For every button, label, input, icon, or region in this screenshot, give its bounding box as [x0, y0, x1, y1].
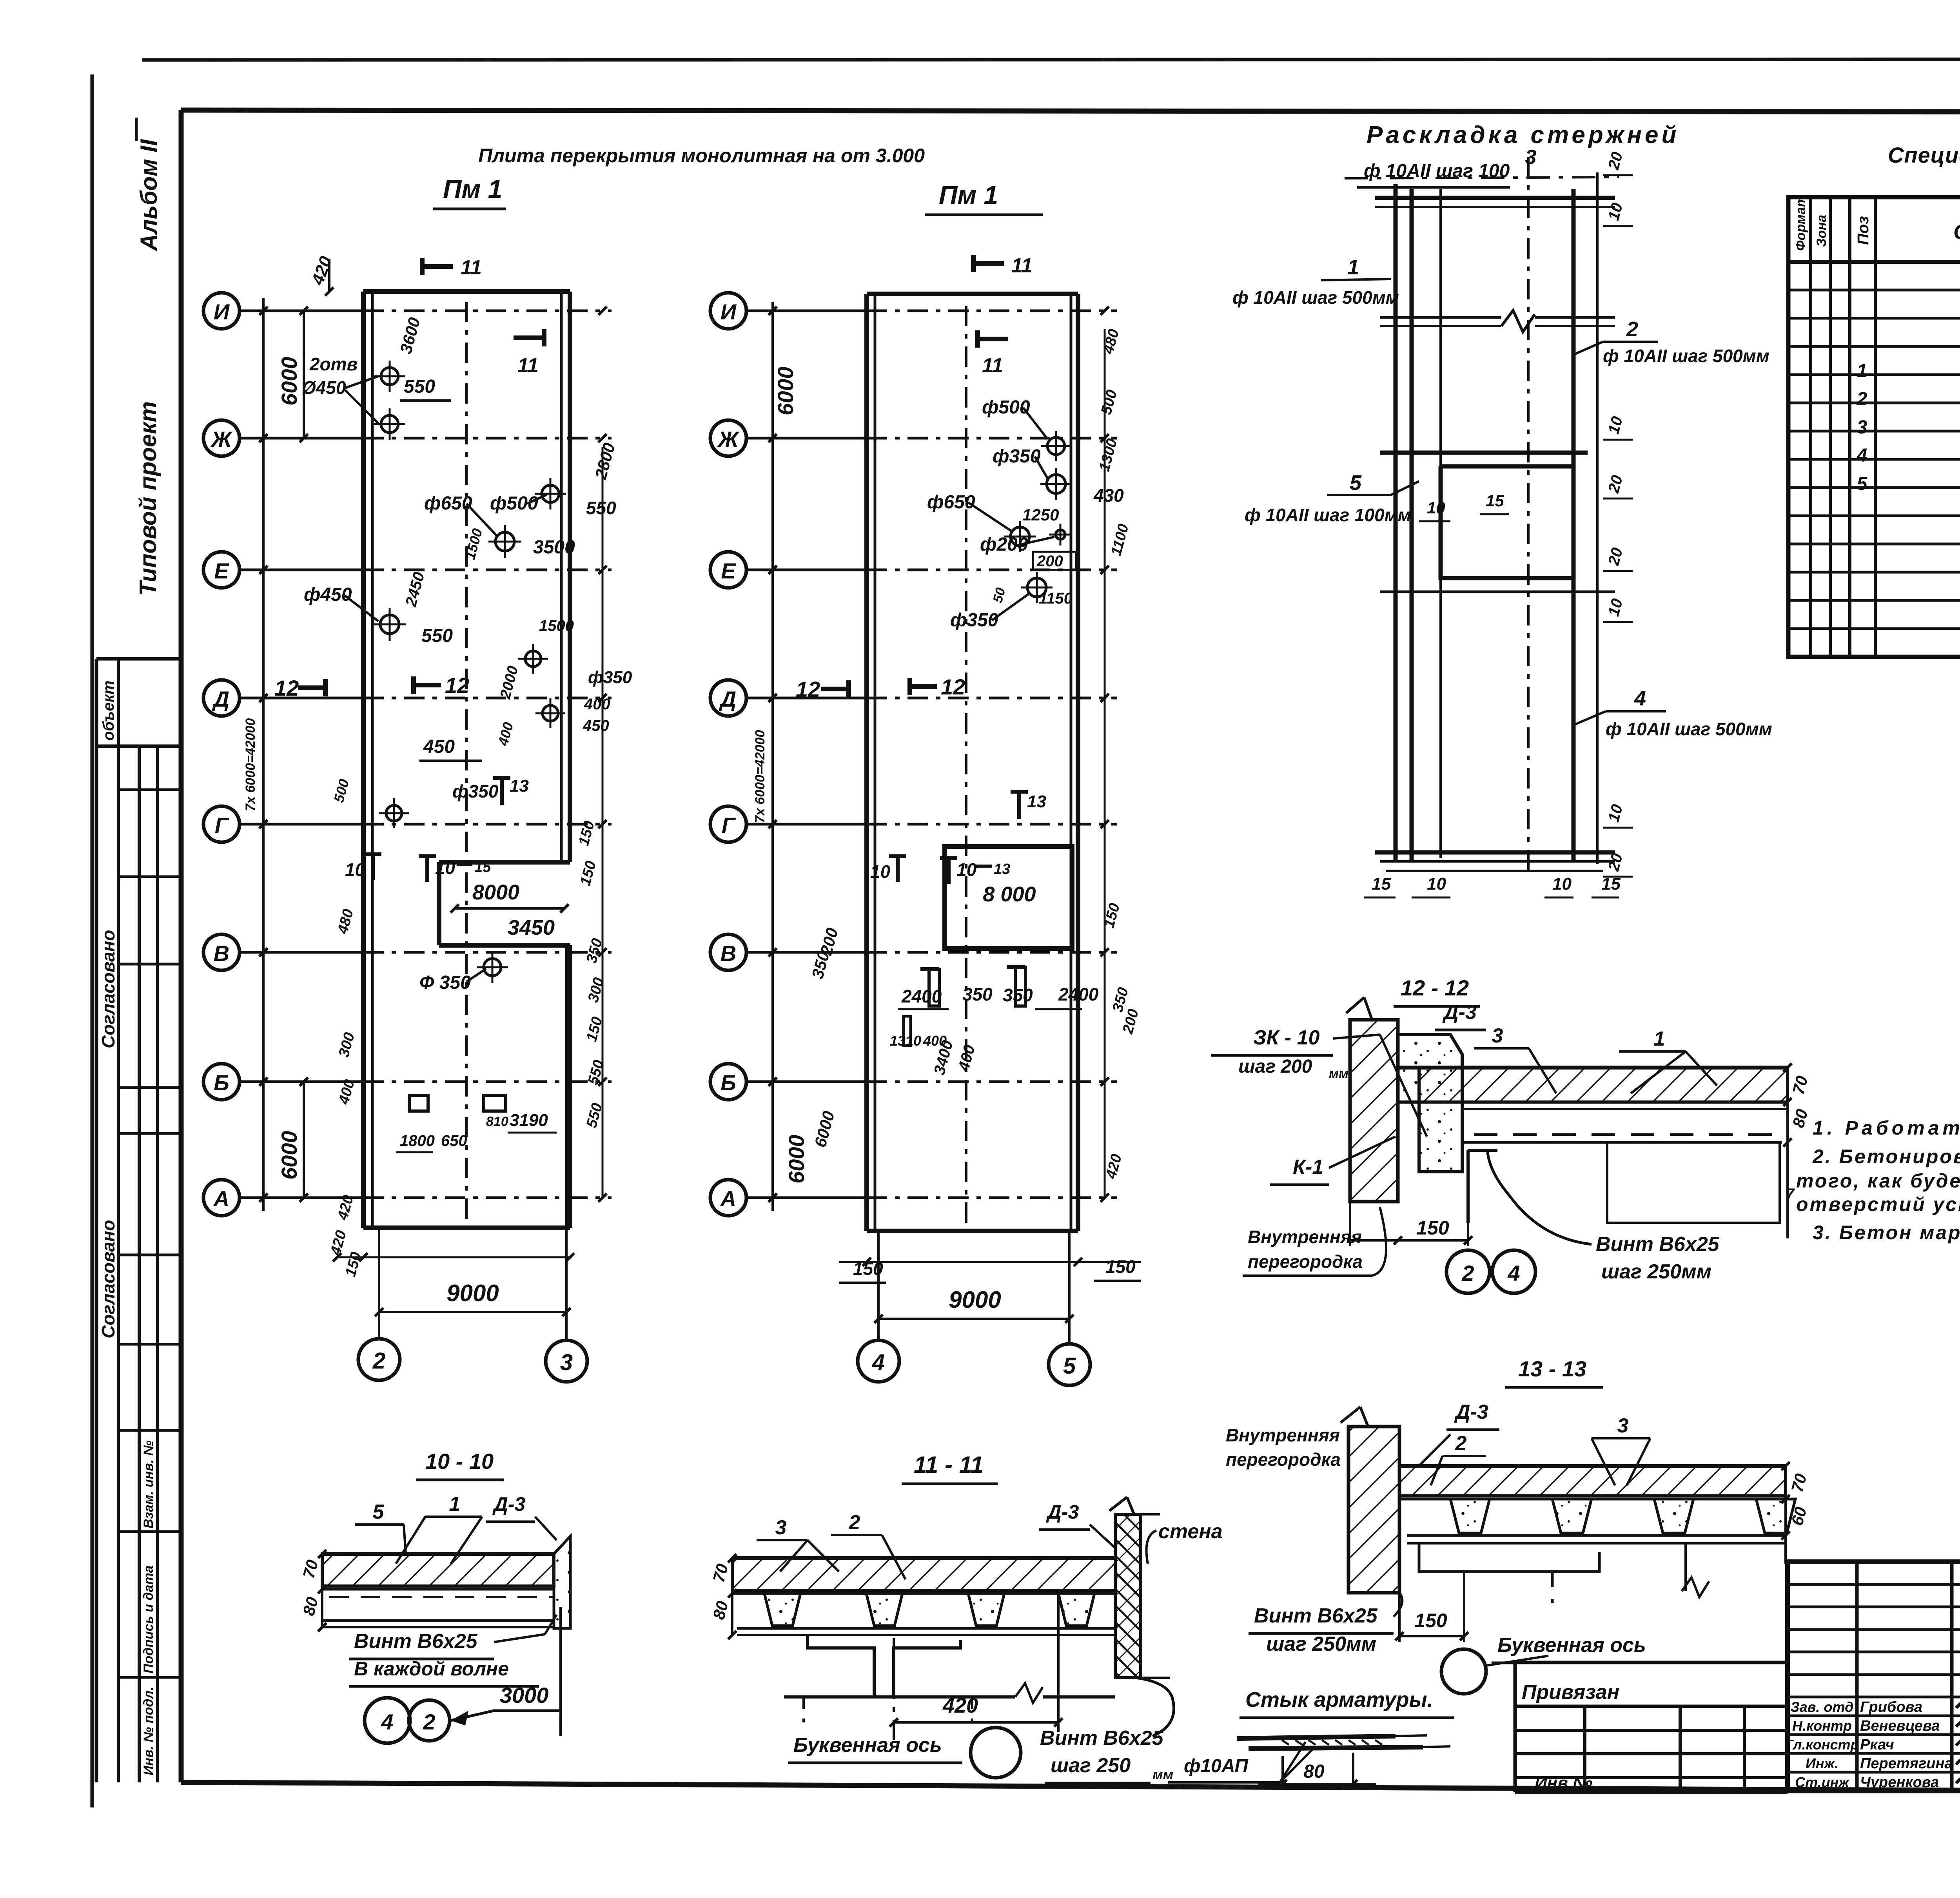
section marker 11 second left plan — [514, 335, 544, 340]
hole circle at 1005,2075 left plan — [386, 805, 402, 821]
embed plate 1 center plan — [929, 969, 939, 1006]
svg-text:ф 10АII шаг 500мм: ф 10АII шаг 500мм — [1232, 287, 1399, 308]
rod top dashdot line — [1345, 177, 1619, 178]
svg-text:Ж: Ж — [717, 427, 740, 451]
axis В circle left plan — [203, 934, 240, 970]
svg-text:К-1: К-1 — [1293, 1156, 1323, 1178]
detail bubble 4 — [1492, 1250, 1535, 1293]
svg-text:Внутренняя: Внутренняя — [1248, 1227, 1362, 1247]
svg-text:Веневцева: Веневцева — [1860, 1718, 1940, 1734]
axis Б circle left plan — [203, 1064, 240, 1100]
rod vertical thin bar right — [1596, 172, 1599, 864]
signature squiggle Ркач — [1956, 1730, 1960, 1749]
svg-text:550: 550 — [421, 625, 453, 646]
frame top line — [181, 110, 1960, 112]
svg-text:2. Бетонирование перекрытия на: 2. Бетонирование перекрытия начинать тол… — [1812, 1146, 1960, 1167]
section marker 12 left center plan — [821, 687, 849, 691]
axis В line center plan — [746, 951, 867, 954]
tb row y4100 — [1788, 1606, 1960, 1608]
embed plate 2 center plan — [1015, 967, 1025, 1006]
svg-text:1: 1 — [1347, 256, 1359, 279]
tb row y4158 — [1788, 1628, 1960, 1631]
section marker 12 right left plan — [414, 683, 441, 687]
axis А line center plan — [746, 1196, 867, 1199]
svg-text:1150: 1150 — [1039, 590, 1073, 607]
hole circle at 994,1082 left plan — [381, 415, 398, 433]
rod bottom bar b — [1380, 860, 1615, 863]
left margin row line y2775 — [118, 1086, 181, 1089]
svg-text:5: 5 — [1063, 1353, 1076, 1379]
svg-text:4: 4 — [381, 1709, 393, 1734]
axis В circle center plan — [710, 934, 746, 970]
left plan slab left edge inner — [371, 292, 374, 1228]
left plan slab left edge outer — [361, 292, 366, 1228]
spec row line y1316 — [1788, 515, 1960, 517]
svg-text:450: 450 — [423, 736, 455, 757]
left margin divider 2 — [138, 746, 141, 1782]
axis bubble 2 — [358, 1339, 400, 1380]
svg-text:Согласовано: Согласовано — [98, 1220, 118, 1338]
svg-text:3450: 3450 — [508, 916, 555, 939]
section marker 12 left left plan — [298, 685, 325, 690]
svg-text:Подпись и дата: Подпись и дата — [141, 1565, 156, 1673]
svg-text:150: 150 — [1414, 1610, 1447, 1632]
frame left line — [179, 110, 184, 1782]
svg-text:шаг 250: шаг 250 — [1051, 1754, 1131, 1777]
svg-text:3000: 3000 — [500, 1683, 549, 1708]
svg-text:Д-3: Д-3 — [1442, 1001, 1477, 1024]
svg-text:1310: 1310 — [890, 1033, 921, 1049]
signature squiggle Перетягина — [1956, 1749, 1960, 1768]
slab concrete band 10-10 — [322, 1554, 554, 1586]
svg-text:Чуренкова: Чуренкова — [1860, 1774, 1939, 1791]
axis bubble 4 — [858, 1340, 899, 1382]
svg-text:10: 10 — [345, 859, 365, 880]
embed plate 1 left plan — [409, 1095, 428, 1111]
svg-text:Взам. инв. №: Взам. инв. № — [141, 1440, 156, 1528]
left margin divider 1 — [117, 659, 120, 1782]
svg-text:ф350: ф350 — [993, 446, 1041, 467]
axis А circle center plan — [710, 1180, 746, 1216]
axis Д circle left plan — [203, 680, 240, 716]
svg-text:Ст.инж: Ст.инж — [1795, 1774, 1850, 1790]
svg-text:3500: 3500 — [533, 537, 575, 558]
spec col line x4719 — [1848, 197, 1851, 657]
svg-text:Формат: Формат — [1793, 195, 1808, 251]
lower chord 12-12 — [1462, 1141, 1782, 1144]
leader ф10АП — [1280, 1742, 1313, 1782]
ext box row line 4 — [1515, 1776, 1788, 1779]
svg-text:400: 400 — [584, 696, 610, 713]
svg-text:4: 4 — [1857, 445, 1867, 466]
rod mid bar left a — [1380, 316, 1501, 319]
svg-text:2: 2 — [1857, 389, 1867, 410]
spec row line y1388 — [1788, 543, 1960, 546]
hole circle at 1288,1382 left plan — [495, 532, 514, 551]
svg-text:В: В — [720, 941, 736, 966]
svg-text:1250: 1250 — [1022, 506, 1059, 524]
left margin row line y3650 — [118, 1429, 181, 1432]
slab concrete band 12-12 — [1419, 1068, 1788, 1102]
spec row line y1100 — [1788, 430, 1960, 433]
left margin row line y3202 — [118, 1254, 181, 1256]
svg-text:Альбом II: Альбом II — [136, 139, 162, 252]
left plan slab bottom edge — [363, 1225, 570, 1230]
section marker 10 pair center plan — [896, 856, 900, 882]
hole circle at 2645,1499 center plan — [1027, 578, 1046, 597]
spec row line y1028 — [1788, 402, 1960, 404]
svg-text:Инв. № подл.: Инв. № подл. — [141, 1687, 156, 1775]
svg-text:1: 1 — [1654, 1028, 1665, 1050]
svg-text:10: 10 — [1552, 874, 1572, 894]
hole circle at 2602,1369 center plan — [1011, 527, 1029, 546]
svg-text:2400: 2400 — [1058, 984, 1099, 1004]
svg-text:ф450: ф450 — [304, 584, 352, 605]
left margin row line y2460 — [118, 963, 181, 966]
left plan slab right edge lower — [568, 945, 572, 1228]
svg-text:И: И — [214, 299, 230, 324]
svg-text:Буквенная ось: Буквенная ось — [1497, 1634, 1646, 1657]
svg-text:Винт В6х25: Винт В6х25 — [1254, 1604, 1378, 1627]
svg-text:Раскладка стержней: Раскладка стержней — [1367, 121, 1679, 149]
svg-text:объект: объект — [100, 680, 117, 741]
ext box row line 3 — [1515, 1752, 1788, 1755]
svg-text:В каждой волне: В каждой волне — [354, 1658, 509, 1680]
section marker 13 center plan — [1017, 792, 1021, 819]
spec row line y1604 — [1788, 627, 1960, 630]
svg-text:ф650: ф650 — [424, 493, 472, 514]
svg-text:Д-3: Д-3 — [492, 1493, 526, 1515]
center plan 9000 dim line — [878, 1318, 1069, 1320]
svg-text:430: 430 — [1093, 485, 1124, 506]
break symbol — [1501, 310, 1535, 332]
rod mid bar right a — [1535, 316, 1615, 319]
ext box left edge — [1514, 1662, 1517, 1792]
detail bubble 2 — [1446, 1250, 1490, 1293]
axis И circle center plan — [710, 293, 746, 329]
axis Д circle center plan — [710, 680, 746, 716]
svg-text:2: 2 — [1461, 1261, 1474, 1285]
deck line 12-12 — [1462, 1108, 1788, 1110]
dashed line 12-12 — [1474, 1133, 1782, 1136]
svg-text:13: 13 — [994, 861, 1010, 877]
axis А circle left plan — [203, 1180, 240, 1216]
axis Б line left plan — [240, 1080, 363, 1083]
slab top line 12-12 — [1398, 1066, 1788, 1070]
left margin row line y2892 — [118, 1132, 181, 1135]
svg-text:11: 11 — [461, 256, 482, 279]
svg-text:Грибова: Грибова — [1860, 1699, 1922, 1715]
signature squiggle Чуренкова — [1956, 1768, 1960, 1787]
left margin row line y2015 — [118, 789, 181, 791]
svg-text:9000: 9000 — [949, 1287, 1001, 1313]
sheet outer left edge line — [91, 74, 94, 1807]
svg-text:2: 2 — [1455, 1432, 1467, 1455]
axis Е circle center plan — [710, 552, 746, 588]
rod vertical thin bar — [1439, 189, 1442, 858]
svg-text:Стык арматуры.: Стык арматуры. — [1245, 1688, 1433, 1711]
svg-text:3: 3 — [775, 1516, 787, 1539]
axis Ж line center plan — [746, 437, 867, 440]
hole circle at 1360,1681 left plan — [525, 651, 541, 667]
svg-text:А: А — [213, 1186, 229, 1211]
center plan slab left edge outer — [864, 294, 869, 1231]
svg-text:ф500: ф500 — [490, 493, 538, 514]
axis Г line left plan — [240, 823, 363, 826]
splice bar upper — [1237, 1736, 1396, 1738]
svg-text:стена: стена — [1158, 1520, 1223, 1543]
left plan top dim leader — [328, 259, 330, 292]
axis Ж circle center plan — [710, 420, 746, 456]
axis bubble 13-13 — [1441, 1649, 1486, 1694]
beam bottom flange 11-11 — [784, 1695, 1015, 1699]
svg-text:Зав. отд: Зав. отд — [1791, 1699, 1854, 1715]
svg-text:Пм 1: Пм 1 — [939, 180, 998, 209]
left margin box top — [96, 657, 181, 661]
rod bar row4 — [1380, 591, 1615, 593]
axis И line left plan — [240, 310, 363, 312]
wall cross-hatch 11-11 — [1115, 1514, 1141, 1678]
svg-text:ф500: ф500 — [982, 397, 1030, 418]
tb row y4215 — [1788, 1651, 1960, 1653]
svg-text:ф350: ф350 — [950, 610, 998, 631]
svg-text:Г: Г — [215, 813, 229, 838]
svg-text:Инж.: Инж. — [1806, 1755, 1838, 1771]
svg-text:15: 15 — [1601, 874, 1621, 894]
svg-text:6000: 6000 — [773, 366, 798, 415]
svg-text:Е: Е — [214, 558, 229, 583]
underline shag100 — [1357, 186, 1510, 189]
svg-text:10: 10 — [956, 859, 977, 880]
ext box top edge — [1515, 1661, 1788, 1664]
center plan slab top edge — [867, 292, 1078, 296]
title block outline — [1788, 1562, 1960, 1791]
center plan slab right edge inner — [1070, 294, 1073, 1231]
ext box divider 3 — [1743, 1706, 1746, 1792]
svg-text:10: 10 — [1427, 874, 1446, 894]
svg-text:Ø450: Ø450 — [302, 377, 346, 398]
svg-text:10: 10 — [435, 857, 456, 878]
left margin box outer edge — [95, 659, 98, 1782]
svg-text:Винт В6х25: Винт В6х25 — [1596, 1233, 1720, 1256]
ext box divider 1 — [1583, 1706, 1586, 1792]
center plan opening rectangle — [945, 847, 1072, 948]
spec row line y1676 — [1788, 656, 1960, 658]
svg-text:80: 80 — [1303, 1761, 1325, 1782]
svg-text:3190: 3190 — [510, 1111, 548, 1130]
svg-text:420: 420 — [942, 1694, 978, 1717]
center plan slab bottom edge — [867, 1229, 1078, 1233]
slab soffit line 12-12 — [1419, 1101, 1788, 1104]
svg-text:6000: 6000 — [784, 1135, 809, 1184]
hole circle at 1404,1820 left plan — [543, 705, 558, 721]
svg-text:А: А — [720, 1186, 736, 1211]
svg-text:15: 15 — [1372, 874, 1391, 894]
svg-text:Д-3: Д-3 — [1046, 1501, 1079, 1523]
rod layout notch outline — [1441, 466, 1573, 578]
axis Д line left plan — [240, 697, 363, 700]
left plan axis 3 vertical — [565, 945, 568, 1340]
center plan slab right edge outer — [1076, 294, 1080, 1231]
spec row line y884 — [1788, 345, 1960, 348]
svg-text:Пм 1: Пм 1 — [443, 174, 502, 203]
svg-text:Д: Д — [719, 687, 736, 711]
svg-text:10: 10 — [870, 861, 891, 882]
hole circle at 1256,2468 left plan — [484, 959, 501, 976]
tb row y4043 — [1788, 1583, 1960, 1586]
tb sig row y4474 — [1788, 1752, 1960, 1755]
signature squiggle Веневцева — [1956, 1711, 1960, 1731]
hole circle at 2694,1138 center plan — [1047, 437, 1065, 455]
spec row line y1244 — [1788, 486, 1960, 489]
svg-text:2: 2 — [849, 1511, 860, 1534]
section marker 11 top center plan — [973, 261, 1004, 266]
svg-text:шаг 250мм: шаг 250мм — [1601, 1260, 1711, 1283]
center plan bottom dim chain — [839, 1261, 1141, 1263]
section marker 12 right center plan — [910, 684, 937, 689]
frame bottom line — [181, 1782, 1960, 1793]
sheet top trim line left — [142, 59, 1960, 60]
left margin row line y3430 — [118, 1343, 181, 1346]
box under slab 12-12 — [1607, 1142, 1780, 1223]
svg-text:Буквенная ось: Буквенная ось — [793, 1734, 942, 1757]
svg-text:10 - 10: 10 - 10 — [425, 1449, 494, 1474]
spec table outline — [1788, 197, 1960, 657]
right dim 13-13 — [1784, 1466, 1787, 1564]
left plan axis 2 vertical — [378, 1228, 380, 1339]
rod top bar b — [1375, 206, 1615, 208]
svg-text:ф10АП: ф10АП — [1184, 1756, 1249, 1777]
svg-text:9000: 9000 — [446, 1280, 499, 1306]
svg-text:3: 3 — [1492, 1024, 1503, 1047]
svg-text:13 - 13: 13 - 13 — [1518, 1356, 1586, 1381]
ext box divider 2 — [1679, 1706, 1682, 1792]
axis Е line left plan — [240, 569, 363, 571]
left plan 9000 dim line — [379, 1311, 566, 1313]
svg-text:перегородка: перегородка — [1248, 1251, 1363, 1272]
section marker 13 left plan — [500, 778, 504, 805]
svg-text:12 - 12: 12 - 12 — [1401, 975, 1469, 1000]
center plan internal centreline — [965, 306, 967, 1223]
svg-text:Д: Д — [212, 687, 229, 711]
svg-text:3: 3 — [560, 1350, 573, 1375]
rod bottom bar a — [1375, 850, 1615, 855]
svg-text:550: 550 — [586, 498, 616, 518]
left plan dim 6000 bottom segment — [303, 1082, 305, 1198]
left plan slab top edge — [363, 289, 570, 294]
svg-text:6000: 6000 — [277, 1131, 301, 1180]
ext box row line 2 — [1515, 1729, 1788, 1732]
spec row line y956 — [1788, 373, 1960, 376]
rod bar row3 — [1380, 451, 1588, 455]
hole circle at 1404,1260 left plan — [542, 485, 559, 502]
spec row line y1460 — [1788, 571, 1960, 574]
svg-text:ф 10АII шаг 100мм: ф 10АII шаг 100мм — [1245, 505, 1411, 525]
left plan bottom dim chain — [337, 1256, 572, 1258]
axis bubble 3 — [546, 1340, 587, 1382]
svg-text:Б: Б — [214, 1070, 229, 1095]
svg-text:Винт В6х25: Винт В6х25 — [1040, 1727, 1164, 1749]
svg-text:1800: 1800 — [400, 1132, 435, 1149]
svg-text:Ркач: Ркач — [1860, 1737, 1894, 1753]
wall hatch 13-13 — [1348, 1427, 1399, 1593]
svg-text:ф350: ф350 — [588, 668, 632, 687]
embed plate 2 left plan — [484, 1095, 506, 1111]
hole circle at 994,1593 left plan — [380, 615, 399, 634]
slab concrete band 13-13 — [1399, 1466, 1786, 1496]
svg-text:Согласовано: Согласовано — [98, 930, 118, 1048]
rod centreline — [1527, 157, 1530, 878]
axis bubble 11-11 — [971, 1728, 1021, 1778]
svg-text:15: 15 — [474, 859, 491, 876]
svg-text:10: 10 — [1427, 499, 1445, 517]
left plan dim chain line — [262, 298, 265, 1211]
signature squiggle Грибова — [1956, 1693, 1960, 1712]
left plan right dim chain — [602, 447, 604, 1199]
svg-text:Обозначение: Обозначение — [1953, 220, 1960, 244]
axis Ж circle left plan — [203, 420, 240, 456]
spec col line x4784 — [1874, 197, 1877, 657]
svg-text:12: 12 — [941, 674, 965, 699]
svg-text:3: 3 — [1617, 1414, 1629, 1437]
left margin row line y3908 — [118, 1530, 181, 1533]
svg-text:ф350: ф350 — [452, 781, 499, 801]
svg-text:2: 2 — [372, 1348, 385, 1374]
embed plate 3 center plan — [904, 1016, 911, 1046]
rod vertical bar 2 — [1410, 189, 1414, 860]
splice lap hatching — [1282, 1740, 1289, 1745]
rod bottom bar c — [1386, 870, 1603, 872]
axis Г line center plan — [746, 823, 867, 826]
svg-text:шаг 200: шаг 200 — [1238, 1056, 1312, 1077]
svg-text:350: 350 — [962, 984, 993, 1004]
hole circle at 994,960 left plan — [381, 368, 398, 385]
center plan dim chain line — [771, 302, 774, 1211]
axis Ж line left plan — [240, 437, 363, 440]
svg-text:Зона: Зона — [1814, 215, 1829, 247]
left plan slab right edge outer — [568, 292, 572, 862]
rod mid bar left b — [1380, 325, 1501, 327]
svg-text:ЗК - 10: ЗК - 10 — [1253, 1026, 1320, 1049]
left plan dim 6000 top segment — [303, 311, 305, 438]
svg-text:1: 1 — [1857, 361, 1867, 381]
center plan axis 4 vertical — [877, 1231, 880, 1340]
svg-text:12: 12 — [274, 676, 299, 700]
svg-text:8 000: 8 000 — [983, 883, 1036, 906]
svg-text:11: 11 — [982, 354, 1003, 377]
svg-text:Плита перекрытия монолитная на: Плита перекрытия монолитная на от 3.000 — [478, 145, 925, 167]
axis И circle left plan — [203, 293, 240, 329]
svg-text:Н.контр: Н.контр — [1792, 1718, 1852, 1734]
tb row y4273 — [1788, 1673, 1960, 1676]
svg-text:810: 810 — [486, 1114, 508, 1129]
profiled deck ribs 13-13 — [1450, 1499, 1490, 1533]
profiled deck ribs 11-11 — [764, 1593, 800, 1626]
axis Г circle center plan — [710, 806, 746, 842]
left plan opening bottom edge — [439, 943, 570, 948]
svg-text:Поз: Поз — [1855, 216, 1872, 245]
splice bar lower — [1249, 1747, 1423, 1749]
bent plate 12-12 — [1468, 1150, 1497, 1223]
svg-text:11: 11 — [517, 354, 539, 377]
spec row line y1172 — [1788, 458, 1960, 461]
spec header bottom line — [1788, 260, 1960, 264]
tb row y4330 — [1788, 1696, 1960, 1699]
underline ф10АП — [1168, 1781, 1280, 1784]
dim 80 left leg — [1281, 1756, 1284, 1790]
tb sig row y4522 — [1788, 1771, 1960, 1774]
svg-text:11: 11 — [1011, 254, 1033, 277]
